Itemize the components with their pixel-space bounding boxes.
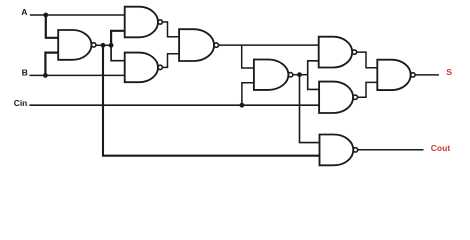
junction node n1 a	[101, 43, 106, 48]
wire net n4 up to U6	[308, 61, 319, 75]
wire net Cout output	[358, 149, 424, 151]
wire net n1 from U1 output	[96, 44, 111, 46]
junction node n1 b	[109, 43, 114, 48]
wire net h horizontal	[219, 44, 319, 46]
wire net n1 up to U2	[111, 31, 125, 46]
wire net n4 down to Cout gate	[300, 75, 321, 143]
wire net n4 down to U7	[308, 75, 320, 90]
wire net h branch down to U5	[242, 45, 255, 68]
NAND gate U1	[58, 30, 96, 60]
svg-text:A: A	[21, 7, 28, 17]
svg-text:Cout: Cout	[431, 143, 451, 153]
wire U2 output to U4	[162, 22, 179, 37]
wire U7 output to U8	[358, 82, 378, 97]
svg-text:S: S	[446, 67, 452, 77]
NAND gate U3	[125, 53, 163, 83]
NAND gate U6	[319, 37, 357, 68]
wire net A branch to U1	[46, 15, 59, 38]
wire net Cin branch up to U5	[242, 83, 255, 105]
NAND gate U2	[125, 7, 163, 38]
wire net n4 from U5 output	[293, 74, 308, 76]
wire net B branch to U1	[45, 53, 58, 76]
wire net B horizontal	[29, 74, 124, 76]
NAND gate U5	[254, 60, 293, 90]
svg-text:B: B	[22, 68, 28, 78]
junction node B	[43, 73, 48, 78]
junction node A	[43, 13, 48, 18]
wire net A horizontal	[30, 14, 125, 16]
wire net n1 down to Cout gate	[103, 45, 320, 155]
NAND gate U7	[319, 82, 357, 113]
wire net n1 down to U3	[111, 45, 125, 60]
NAND gate U4	[179, 29, 218, 61]
wire U6 output to U8	[357, 52, 378, 68]
svg-text:Cin: Cin	[14, 98, 27, 108]
wire U3 output to U4	[162, 54, 179, 68]
wire net Cin horizontal	[29, 104, 319, 106]
NAND gate U9	[320, 135, 358, 166]
NAND gate U8	[377, 60, 415, 90]
junction node n4	[297, 72, 302, 77]
wire net S output	[415, 74, 439, 76]
junction node Cin	[240, 103, 245, 108]
